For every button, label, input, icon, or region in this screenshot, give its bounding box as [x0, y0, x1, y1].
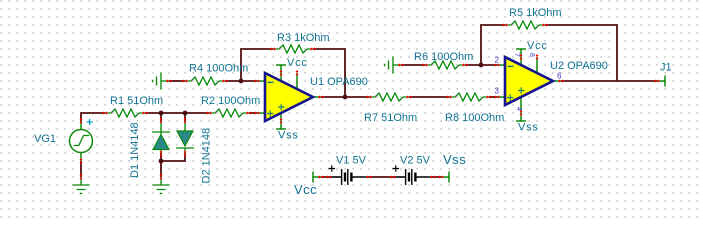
ground under diodes: [153, 174, 170, 193]
label D2: [201, 128, 213, 184]
diode D1 1N4148: [152, 118, 170, 157]
label U1 OPA690: [310, 76, 368, 88]
wire R1 right to R2 left (through diode taps): [145, 112, 209, 114]
resistor R8: [446, 93, 492, 101]
svg-text:R8 100Ohm: R8 100Ohm: [445, 112, 504, 124]
svg-text:R3 1kOhm: R3 1kOhm: [277, 32, 330, 44]
label U1 Vcc: [287, 57, 308, 69]
node D2 tap: [183, 111, 188, 116]
resistor R2: [206, 109, 252, 117]
wire V2 to Vss terminal: [433, 176, 441, 178]
label R3 value: [277, 32, 330, 44]
svg-text:Vcc: Vcc: [287, 57, 308, 69]
wire Vcc terminal to V1: [321, 176, 329, 178]
label R7 value: [364, 112, 417, 124]
wire R4 right to U1 -in: [225, 80, 257, 82]
svg-text:R5 1kOhm: R5 1kOhm: [509, 7, 562, 19]
svg-text:6: 6: [557, 72, 562, 81]
Vcc supply terminal: [313, 172, 324, 183]
label VG1: [34, 133, 56, 145]
pin 3 U2: [495, 87, 500, 96]
wire R5 right down to output net: [545, 25, 617, 81]
ground under VG1: [73, 174, 90, 193]
output terminal J1: [654, 76, 665, 87]
label R1 value: [110, 95, 163, 107]
svg-text:Vss: Vss: [443, 152, 466, 167]
wire R3 right to U1 output node: [313, 49, 345, 97]
svg-text:V1 5V: V1 5V: [336, 155, 367, 167]
ground left of R6: [385, 57, 404, 74]
pin 7 U2 rotated: [513, 53, 520, 57]
svg-text:3: 3: [495, 87, 500, 96]
svg-text:R7 51Ohm: R7 51Ohm: [364, 112, 417, 124]
node U2 inverting input: [479, 63, 484, 68]
wire R6 right to U2 -in: [465, 64, 497, 66]
op-amp U1 OPA690: [254, 65, 324, 129]
wire D1 top tap: [160, 113, 162, 121]
wire D2 bottom to D1 bottom: [161, 153, 185, 161]
svg-text:J1: J1: [660, 62, 672, 74]
svg-text:7: 7: [513, 53, 520, 57]
node D1 tap: [159, 111, 164, 116]
svg-text:R2 100Ohm: R2 100Ohm: [201, 95, 260, 107]
pin 4 U2 rotated: [515, 107, 522, 111]
voltage generator VG1: [70, 118, 93, 164]
pin 8 U2 rotated: [528, 53, 535, 57]
svg-text:8: 8: [528, 53, 535, 57]
svg-text:Vcc: Vcc: [294, 182, 317, 197]
diode D2 1N4148: [176, 118, 194, 157]
svg-text:R6 100Ohm: R6 100Ohm: [414, 51, 473, 63]
wire ground to R6 left: [401, 64, 425, 66]
svg-text:Vss: Vss: [278, 130, 299, 142]
node diode ground junction: [159, 159, 164, 164]
svg-text:D1 1N4148: D1 1N4148: [129, 122, 141, 178]
svg-text:U2 OPA690: U2 OPA690: [550, 60, 608, 72]
svg-text:U1 OPA690: U1 OPA690: [310, 76, 368, 88]
svg-text:2: 2: [495, 56, 500, 65]
label U2 OPA690: [550, 60, 608, 72]
label U2 Vss: [518, 122, 539, 134]
resistor R4: [182, 77, 228, 85]
label V1 value: [336, 155, 367, 167]
resistor R7: [366, 93, 412, 101]
node U1 inverting input: [239, 79, 244, 84]
svg-text:4: 4: [515, 107, 522, 111]
label U1 Vss: [278, 130, 299, 142]
wire U2 feedback left leg to R5: [481, 25, 505, 65]
wire R2 right to U1 +in: [249, 112, 257, 114]
pin 6 U2: [557, 72, 562, 81]
battery V2: [390, 165, 436, 185]
op-amp U2 OPA690: [494, 49, 564, 121]
wire U1 output to R7: [321, 96, 369, 98]
resistor R5 feedback: [502, 21, 548, 29]
label R2 value: [201, 95, 260, 107]
wire VG1 bottom to ground: [80, 161, 82, 177]
label V2 value: [400, 155, 431, 167]
pin 2 U2: [495, 56, 500, 65]
svg-text:V2 5V: V2 5V: [400, 155, 431, 167]
label U2 Vcc: [527, 40, 548, 52]
wire D2 top tap: [184, 113, 186, 121]
label J1: [660, 62, 672, 74]
battery V1: [326, 165, 372, 185]
ground left of R4: [153, 73, 172, 90]
wire ground to R4 left: [169, 80, 185, 82]
label R5 value: [509, 7, 562, 19]
svg-text:Vcc: Vcc: [527, 40, 548, 52]
wire U2 output to J1: [561, 80, 657, 82]
label R8 value: [445, 112, 504, 124]
wire R7 right to R8 left: [409, 96, 449, 98]
wire R8 right to U2 +in: [489, 96, 497, 98]
label R6 value: [414, 51, 473, 63]
Vss supply terminal: [438, 172, 449, 183]
svg-text:R4 100Ohm: R4 100Ohm: [189, 63, 248, 75]
label Vss supply: [443, 152, 466, 167]
label Vcc supply: [294, 182, 317, 197]
resistor R6: [422, 61, 468, 69]
resistor R1: [102, 109, 148, 117]
wire VG1 top to R1: [81, 113, 105, 121]
resistor R3 feedback: [270, 45, 316, 53]
label R4 value: [189, 63, 248, 75]
svg-text:Vss: Vss: [518, 122, 539, 134]
wire V1 to V2: [369, 176, 393, 178]
node U1 output: [343, 95, 348, 100]
wire U1 feedback left leg to R3: [241, 49, 273, 81]
svg-text:VG1: VG1: [34, 133, 56, 145]
wire D1 bottom to ground node: [160, 153, 162, 161]
svg-text:R1 51Ohm: R1 51Ohm: [110, 95, 163, 107]
label D1: [129, 122, 141, 178]
wire diode node to ground: [160, 161, 162, 177]
svg-text:D2 1N4148: D2 1N4148: [201, 128, 213, 184]
